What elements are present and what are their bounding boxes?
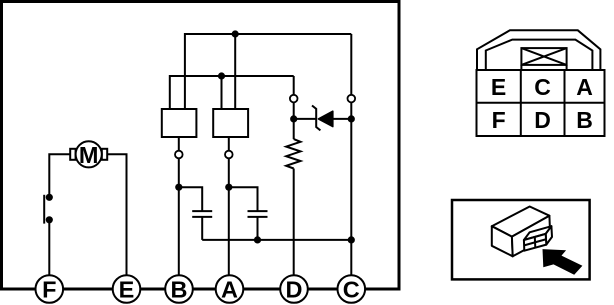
- relay unit icon: [492, 207, 550, 257]
- connector hood outer: [477, 30, 600, 70]
- wire: capacitor C2 to bottom bus: [257, 217, 259, 240]
- arrow: [543, 249, 583, 275]
- wire: motor right lead to terminal E: [107, 154, 127, 289]
- contact circle: node D: [290, 95, 298, 103]
- wire: relay K2 left lead: [221, 76, 223, 109]
- svg-text:D: D: [286, 277, 303, 303]
- svg-text:D: D: [534, 107, 551, 133]
- svg-text:A: A: [576, 74, 593, 100]
- terminal A: [216, 275, 244, 303]
- wire: top bus: [185, 34, 351, 109]
- wire: capacitor C1 to bottom bus: [201, 217, 203, 240]
- junction dot: node B branch: [175, 184, 182, 191]
- switch contact lower: [46, 216, 53, 223]
- wire: bottom bus: [202, 239, 351, 241]
- wire: relay K2 output to terminal A: [228, 137, 230, 289]
- connector latch: [521, 48, 566, 70]
- svg-text:C: C: [343, 277, 360, 303]
- capacitor C2: [248, 211, 268, 217]
- junction dot: node A branch: [225, 184, 232, 191]
- svg-text:E: E: [491, 74, 506, 100]
- wire: capacitor C2 branch: [229, 187, 258, 211]
- component location box: [452, 200, 590, 279]
- contact circle: node C: [348, 95, 356, 103]
- wire: second bus: [170, 76, 294, 109]
- svg-text:C: C: [534, 74, 551, 100]
- svg-text:A: A: [221, 277, 238, 303]
- svg-text:B: B: [576, 107, 593, 133]
- wire: capacitor C1 branch: [179, 187, 202, 211]
- terminal C: [338, 275, 366, 303]
- zener diode D1: [294, 106, 352, 131]
- switch contact upper: [46, 194, 53, 201]
- wire: terminal D riser (upper): [293, 76, 295, 139]
- terminal F: [36, 275, 64, 303]
- wire: terminal C riser: [350, 34, 352, 289]
- junction dot: bottom bus / C2: [254, 236, 261, 243]
- wire: terminal D riser (lower): [293, 169, 295, 290]
- wire: motor left lead: [49, 154, 70, 197]
- relay coil K2: [213, 109, 248, 137]
- wire: relay K1 output to terminal B: [178, 137, 180, 289]
- motor M: [70, 141, 107, 168]
- wire: relay K2 right lead: [234, 34, 236, 109]
- svg-text:F: F: [42, 277, 56, 303]
- terminal D: [280, 275, 308, 303]
- switch blade: [43, 195, 45, 224]
- junction dot: zener right: [348, 115, 355, 122]
- pin table: [477, 70, 605, 136]
- relay connector icon: [524, 226, 552, 251]
- junction dot: top bus / relay K2: [232, 30, 239, 37]
- svg-text:E: E: [119, 277, 135, 303]
- contact circle: relay K1 output: [175, 151, 183, 159]
- capacitor C1: [192, 211, 212, 217]
- svg-text:M: M: [79, 142, 99, 168]
- connector hood inner: [486, 40, 593, 70]
- junction dot: bottom bus / terminal C riser: [348, 236, 355, 243]
- contact circle: relay K2 output: [225, 151, 233, 159]
- junction dot: second bus / relay K2: [218, 72, 225, 79]
- main circuit box: [2, 2, 400, 290]
- resistor R1: [286, 139, 300, 168]
- terminal B: [165, 275, 193, 303]
- relay coil K1: [162, 109, 197, 137]
- svg-text:F: F: [492, 107, 506, 133]
- terminal E: [113, 275, 141, 303]
- junction dot: zener left / resistor top: [290, 115, 297, 122]
- wire: switch to terminal F: [48, 220, 50, 289]
- svg-text:B: B: [171, 277, 188, 303]
